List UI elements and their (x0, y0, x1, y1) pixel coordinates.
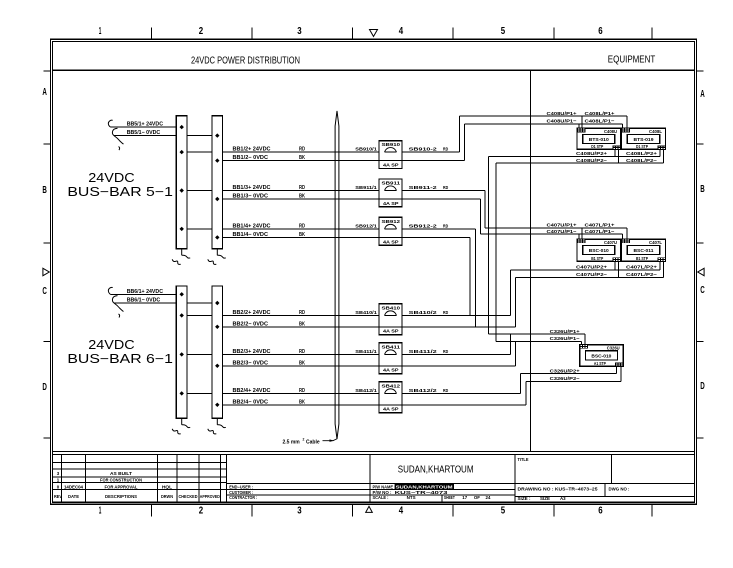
svg-text:SB411: SB411 (382, 344, 401, 350)
wire BB5/1- feed (114, 135, 217, 137)
svg-text:B: B (700, 184, 705, 195)
wire BB6/1+ feed (111, 293, 182, 295)
wire riser V5 (488, 157, 490, 335)
svg-text:SB910: SB910 (382, 142, 401, 148)
cable label leader line (323, 439, 337, 441)
wire P2- C408U/C408L (496, 162, 664, 164)
svg-text:C326U/P1−: C326U/P1− (550, 336, 580, 342)
wire SB911 0VDC (402, 198, 480, 200)
svg-text:SB912: SB912 (382, 219, 401, 225)
wire C326U/P2+ (520, 373, 616, 375)
svg-text:DWG NO :: DWG NO : (609, 487, 631, 492)
svg-text:BK: BK (299, 232, 305, 238)
top ruler ticks (151, 28, 153, 40)
svg-text:17: 17 (462, 495, 467, 500)
svg-text:C408L/P1+: C408L/P1+ (585, 111, 615, 117)
svg-text:5: 5 (501, 26, 506, 37)
svg-text:C408U/P1+: C408U/P1+ (547, 111, 577, 117)
title strip divider (52, 69, 694, 71)
wire P1+ C408U/C408L (460, 115, 628, 117)
svg-text:C407L/P2−: C407L/P2− (626, 272, 657, 278)
svg-text:RD: RD (299, 223, 305, 229)
svg-text:SB411/1: SB411/1 (355, 349, 377, 355)
svg-text:END−USER :: END−USER : (229, 484, 253, 489)
wire SB411 0VDC (402, 365, 516, 367)
svg-text:HQL: HQL (162, 484, 172, 489)
wire SB910-2 (402, 151, 460, 153)
right center marker triangle (698, 268, 704, 275)
connector C407L P2 (658, 258, 665, 262)
svg-text:C407L/P1−: C407L/P1− (585, 229, 615, 235)
bus bar continuation squiggles (181, 249, 183, 256)
equipment box C407U (577, 239, 621, 261)
svg-text:BB1/4+ 24VDC: BB1/4+ 24VDC (233, 223, 271, 229)
svg-text:BB2/4+ 24VDC: BB2/4+ 24VDC (233, 388, 271, 394)
wire riser V10 (515, 277, 517, 326)
svg-text:RD: RD (299, 185, 305, 191)
svg-text:A: A (700, 89, 705, 100)
wire BB2/4- (217, 404, 379, 406)
wire BB2/2- (217, 326, 379, 328)
svg-text:2.5 mm: 2.5 mm (283, 440, 301, 446)
svg-text:BB1/3+ 24VDC: BB1/3+ 24VDC (233, 185, 271, 191)
svg-text:2: 2 (303, 438, 305, 442)
wire BB2/3- (217, 365, 379, 367)
svg-text:4A SP: 4A SP (383, 163, 399, 169)
wire riser V3 (484, 191, 486, 228)
module label BSC-011 (627, 245, 659, 254)
svg-text:SCALE :: SCALE : (373, 495, 389, 500)
wire P2+ C407U/C407L (511, 269, 660, 271)
svg-text:3: 3 (297, 26, 302, 37)
svg-text:BK: BK (299, 399, 305, 405)
svg-text:BB5/1+ 24VDC: BB5/1+ 24VDC (127, 122, 163, 128)
svg-text:P/W NAME :: P/W NAME : (373, 484, 396, 489)
svg-text:B1 STP: B1 STP (636, 256, 648, 261)
wire riser V1 (459, 116, 461, 152)
wire P1+ C407U/C407L (485, 227, 627, 229)
svg-text:C408U/P1−: C408U/P1− (547, 118, 577, 124)
bus bar continuation squiggles (181, 418, 183, 425)
svg-text:OF: OF (474, 495, 480, 500)
svg-text:A: A (42, 87, 47, 98)
svg-text:14DEC04: 14DEC04 (64, 484, 84, 489)
svg-text:4A SP: 4A SP (383, 407, 399, 413)
svg-text:C326U/P2−: C326U/P2− (550, 376, 580, 382)
connector C407U P2 (613, 258, 620, 262)
svg-text:SIZE :: SIZE : (518, 496, 532, 501)
svg-text:A3: A3 (560, 496, 566, 501)
svg-text:SB412/1: SB412/1 (355, 388, 377, 394)
svg-text:2: 2 (199, 506, 204, 517)
svg-text:DATE: DATE (68, 494, 79, 499)
svg-text:C407U/P1+: C407U/P1+ (547, 223, 577, 229)
wire BB2/2+ (182, 314, 379, 316)
svg-text:BB2/4− 0VDC: BB2/4− 0VDC (233, 399, 269, 405)
node dots on bus bars (180, 292, 184, 296)
fuse SB412 (379, 382, 402, 413)
svg-text:4: 4 (399, 26, 404, 37)
left ruler ticks (44, 70, 51, 72)
svg-text:6: 6 (598, 506, 603, 517)
connector C326U P1 (580, 345, 587, 349)
svg-text:C326U/P2+: C326U/P2+ (550, 368, 580, 374)
svg-text:AS BUILT: AS BUILT (110, 471, 132, 476)
outer border frame (50, 39, 696, 504)
wire SB411/2 (402, 353, 511, 355)
svg-text:24: 24 (486, 495, 491, 500)
wire BB1/3- (217, 198, 379, 200)
wire C326U/P1+ (489, 333, 585, 335)
equipment box C326U (580, 345, 624, 367)
svg-text:FOR CONSTRUCTION: FOR CONSTRUCTION (100, 478, 142, 483)
wire BB2/3+ (182, 353, 379, 355)
equipment box C407L (622, 239, 666, 261)
svg-text:C326U/P1+: C326U/P1+ (550, 329, 580, 335)
fuse SB411 (379, 343, 402, 374)
svg-text:FOR APPROVAL: FOR APPROVAL (105, 484, 138, 489)
svg-text:C407L/P2+: C407L/P2+ (626, 264, 657, 270)
svg-text:D: D (42, 382, 47, 393)
connector C408U P1 (577, 128, 584, 132)
svg-text:B: B (42, 185, 47, 196)
svg-text:C408L/P2−: C408L/P2− (626, 158, 657, 164)
svg-text:5: 5 (501, 506, 506, 517)
svg-text:2: 2 (199, 26, 204, 37)
wire P1- C408U/C408L (465, 123, 623, 125)
svg-text:C: C (700, 285, 705, 296)
wire riser V8 (469, 237, 471, 315)
wire BB1/3+ (182, 190, 379, 192)
end-user section (227, 482, 370, 484)
svg-text:C408L/P1−: C408L/P1− (585, 118, 615, 124)
svg-text:BTS-010: BTS-010 (589, 137, 609, 142)
bus bar BB6 positive (176, 286, 187, 418)
bottom ruler ticks (151, 504, 153, 516)
fuse SB910 (379, 141, 402, 169)
title block revision table (52, 461, 226, 463)
cable bundle symbol W1 (335, 111, 339, 439)
left center marker triangle (43, 268, 49, 275)
svg-text:D1 STP: D1 STP (591, 144, 603, 149)
node dots on bus bars (180, 125, 184, 129)
wire riser V7 (475, 229, 477, 327)
svg-text:6: 6 (598, 26, 603, 37)
svg-text:4A SP: 4A SP (383, 329, 399, 335)
project info rows (370, 489, 515, 491)
wire C326U/P1- (496, 340, 582, 342)
connector C407U P1 (577, 239, 584, 243)
svg-text:BSC-010: BSC-010 (591, 354, 611, 359)
svg-text:NTS: NTS (407, 495, 416, 500)
svg-text:24VDC POWER DISTRIBUTION: 24VDC POWER DISTRIBUTION (191, 55, 300, 66)
wire BB2/4+ (182, 392, 379, 394)
module label BTS-010 (583, 134, 615, 143)
wire SB912 0VDC (402, 236, 470, 238)
svg-text:4A SP: 4A SP (383, 368, 399, 374)
svg-text:BB1/4− 0VDC: BB1/4− 0VDC (233, 232, 269, 238)
svg-text:RD: RD (299, 147, 305, 153)
connector C408L P2 (658, 146, 665, 150)
svg-text:B1 STP: B1 STP (591, 256, 603, 261)
wire SB910 0VDC (402, 160, 465, 162)
svg-text:BB5/1− 0VDC: BB5/1− 0VDC (127, 130, 161, 136)
svg-text:BK: BK (299, 321, 305, 327)
fuse SB911 (379, 179, 402, 207)
wire BB1/2+ (182, 151, 379, 153)
svg-text:EQUIPMENT: EQUIPMENT (608, 54, 656, 65)
svg-text:BUS−BAR 5−1: BUS−BAR 5−1 (67, 184, 172, 199)
svg-text:A1 STP: A1 STP (594, 361, 606, 366)
wire P2+ C408U/C408L (489, 156, 660, 158)
svg-text:REV: REV (54, 494, 62, 499)
svg-text:BB1/3− 0VDC: BB1/3− 0VDC (233, 194, 269, 200)
svg-text:RD: RD (299, 388, 305, 394)
wire riser V11 (510, 334, 512, 354)
svg-text:DRWN: DRWN (161, 494, 173, 499)
bus bar BB5 negative (212, 116, 223, 249)
svg-text:SB412: SB412 (382, 383, 401, 389)
svg-text:SB410/1: SB410/1 (355, 310, 377, 316)
wire BB5/1+ feed (111, 126, 182, 128)
wire riser V14 (525, 381, 527, 405)
svg-text:BSC-010: BSC-010 (589, 248, 609, 253)
svg-text:DRAWING NO : KUS−TR−4073−25: DRAWING NO : KUS−TR−4073−25 (518, 487, 599, 492)
svg-text:BB6/1− 0VDC: BB6/1− 0VDC (127, 298, 161, 304)
svg-text:BUS−BAR 6−1: BUS−BAR 6−1 (67, 351, 172, 366)
wire SB911-2 (402, 190, 485, 192)
svg-text:C407U/P2−: C407U/P2− (576, 272, 607, 278)
svg-text:3: 3 (297, 506, 302, 517)
svg-text:C407U/P2+: C407U/P2+ (576, 264, 607, 270)
svg-text:BB2/2+ 24VDC: BB2/2+ 24VDC (233, 310, 271, 316)
svg-text:SIZE: SIZE (540, 496, 550, 501)
svg-text:BK: BK (299, 194, 305, 200)
svg-text:Cable: Cable (306, 440, 320, 446)
wire riser V12 (515, 341, 517, 366)
right ruler ticks (697, 70, 704, 72)
svg-text:BTS-019: BTS-019 (634, 137, 654, 142)
svg-text:C408U/P2+: C408U/P2+ (576, 151, 607, 157)
wire BB1/4- (217, 236, 379, 238)
bus bar BB5 positive (176, 116, 187, 249)
svg-text:CONTRACTOR :: CONTRACTOR : (229, 495, 257, 500)
svg-text:KUS−TR−4073: KUS−TR−4073 (395, 490, 449, 495)
svg-text:BB6/1+ 24VDC: BB6/1+ 24VDC (127, 289, 163, 295)
wire SB410/2 (402, 314, 511, 316)
project name box SUDAN,KHARTOUM (369, 455, 371, 503)
svg-text:D: D (700, 381, 705, 392)
connector C408L P1 (622, 128, 629, 132)
svg-text:BB2/3− 0VDC: BB2/3− 0VDC (233, 360, 269, 366)
top center marker triangle (370, 30, 378, 37)
svg-text:C407U/P1−: C407U/P1− (547, 229, 577, 235)
svg-text:BB1/2+ 24VDC: BB1/2+ 24VDC (233, 147, 271, 153)
svg-text:BB1/2− 0VDC: BB1/2− 0VDC (233, 155, 269, 161)
svg-text:CHECKED: CHECKED (179, 494, 198, 499)
svg-text:TITLE: TITLE (518, 457, 529, 462)
wire SB412 0VDC (402, 404, 526, 406)
bottom center marker triangle (366, 506, 373, 512)
svg-text:24VDC: 24VDC (88, 337, 134, 352)
svg-text:4A SP: 4A SP (383, 201, 399, 207)
svg-text:SB910/1: SB910/1 (355, 147, 377, 153)
connector C326U P2 (616, 363, 623, 367)
wire SB412/2 (402, 392, 520, 394)
svg-text:4A SP: 4A SP (383, 239, 399, 245)
wire riser V6 (495, 163, 497, 341)
svg-text:1: 1 (99, 26, 102, 37)
svg-text:1: 1 (99, 506, 102, 517)
svg-text:DESCRIPTIONS: DESCRIPTIONS (105, 494, 137, 499)
wire riser V9 (510, 270, 512, 316)
wire BB1/2- (217, 160, 379, 162)
module label BTS-019 (627, 134, 659, 143)
svg-text:SUDAN,KHARTOUM: SUDAN,KHARTOUM (396, 484, 453, 489)
svg-text:C408U/P2−: C408U/P2− (576, 158, 607, 164)
equipment box C408L (622, 128, 666, 149)
equipment box C408U (577, 128, 621, 149)
bus bar BB6 negative (212, 286, 223, 418)
wire riser V2 (464, 124, 466, 161)
title cell (514, 455, 516, 503)
svg-text:SHEET: SHEET (444, 495, 455, 500)
drawing area bottom double line (52, 451, 694, 453)
svg-text:SB410: SB410 (382, 305, 401, 311)
svg-text:C: C (42, 286, 47, 297)
svg-text:C408L/P2+: C408L/P2+ (626, 151, 657, 157)
drawing number row (515, 496, 694, 498)
svg-text:BK: BK (299, 155, 305, 161)
fuse SB410 (379, 304, 402, 335)
connector C408U P2 (613, 146, 620, 150)
connector C407L P1 (622, 239, 629, 243)
svg-text:BB2/2− 0VDC: BB2/2− 0VDC (233, 321, 269, 327)
svg-text:C407L/P1+: C407L/P1+ (585, 223, 615, 229)
wire riser V13 (519, 374, 521, 394)
svg-text:BK: BK (299, 360, 305, 366)
fuse SB912 (379, 217, 402, 245)
svg-text:4: 4 (399, 506, 404, 517)
wire SB410 0VDC (402, 326, 516, 328)
wire BB1/4+ (182, 228, 379, 230)
svg-text:SB912/1: SB912/1 (355, 223, 377, 229)
svg-text:RD: RD (299, 310, 305, 316)
svg-text:D1 STP: D1 STP (636, 144, 648, 149)
svg-text:SB911: SB911 (382, 180, 401, 186)
svg-text:24VDC: 24VDC (88, 170, 134, 185)
wire C326U/P2- (526, 380, 621, 382)
wire riser V4 (479, 199, 481, 234)
svg-text:APPROVED: APPROVED (200, 494, 220, 499)
svg-text:RD: RD (299, 349, 305, 355)
module label BSC-010 (585, 351, 617, 360)
wire P2- C407U/C407L (516, 276, 664, 278)
svg-text:BB2/3+ 24VDC: BB2/3+ 24VDC (233, 349, 271, 355)
wire P1- C407U/C407L (480, 233, 622, 235)
svg-text:BSC-011: BSC-011 (634, 248, 654, 253)
equipment section divider (530, 70, 532, 451)
svg-text:SB911/1: SB911/1 (355, 185, 377, 191)
module label BSC-010 (583, 245, 615, 254)
wire SB912-2 (402, 228, 476, 230)
wire BB6/1- feed (114, 302, 217, 304)
svg-text:SUDAN,KHARTOUM: SUDAN,KHARTOUM (398, 464, 474, 475)
